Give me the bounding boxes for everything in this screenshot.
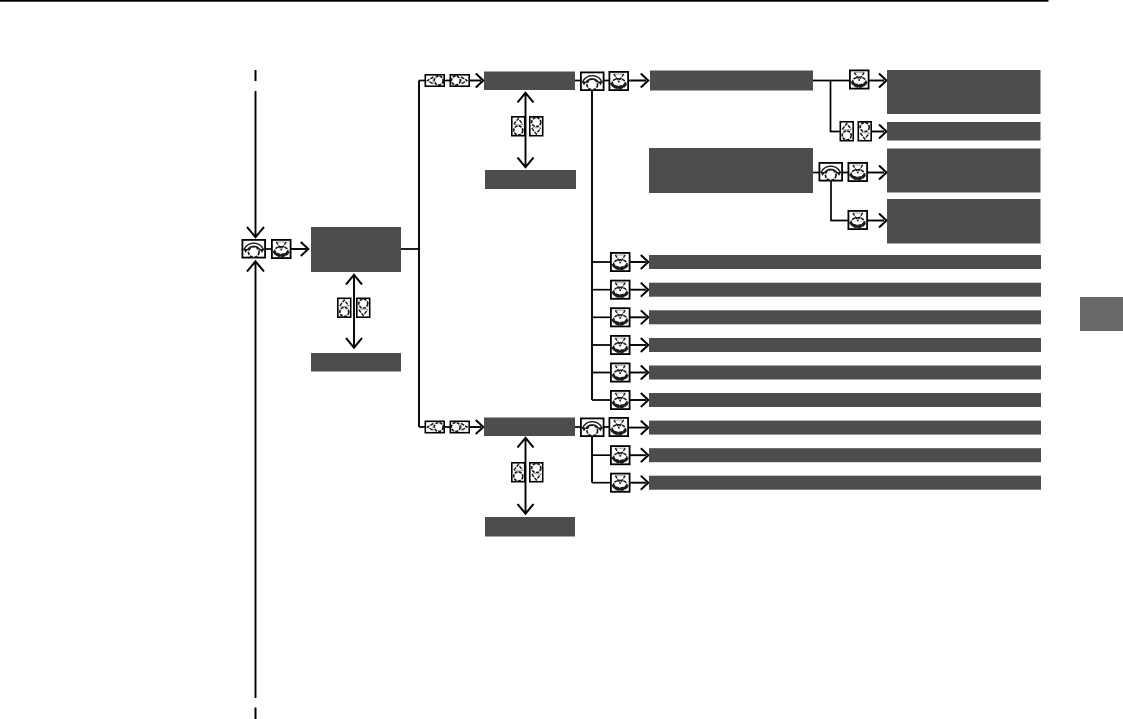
up-down arrow under box A xyxy=(353,276,355,347)
spine 1 vertical xyxy=(418,81,420,428)
arrow row c6 xyxy=(631,399,647,401)
tilt-up icon U2 xyxy=(512,117,525,136)
wire stub row c9 xyxy=(592,482,611,484)
tilt-up icon U1 xyxy=(338,298,351,317)
tilt-down icon D3 xyxy=(858,122,871,141)
press-knob icon P6 xyxy=(609,418,628,436)
bar c8 xyxy=(649,448,1041,462)
wire stub row c2 xyxy=(592,289,611,291)
tilt-down icon D4 xyxy=(530,463,543,482)
top border line xyxy=(0,0,1049,2)
bar c3 xyxy=(649,310,1041,324)
box E speed dial 2 xyxy=(485,170,576,189)
tilt-down icon D2 xyxy=(530,117,543,136)
box G call confirm xyxy=(887,70,1041,114)
arrow to box D xyxy=(629,80,646,82)
rotate-knob icon R2 xyxy=(581,72,604,90)
left rail bottom dash xyxy=(255,708,257,719)
down arrowhead into rotate icon xyxy=(247,227,264,237)
box A main menu xyxy=(311,227,401,272)
wire icon link row1 xyxy=(264,248,273,250)
box C call history xyxy=(484,72,575,91)
wire box F to rotate icon xyxy=(813,172,820,174)
arrow to box C2 xyxy=(470,426,481,428)
bar c5 xyxy=(649,366,1041,380)
arrow row c3 xyxy=(631,316,647,318)
box B speed dial xyxy=(311,353,401,372)
bar c2 xyxy=(649,283,1041,297)
wire drop from box D junction xyxy=(831,81,841,132)
left rail lower wire xyxy=(255,262,257,699)
rotate-knob icon R4 xyxy=(581,418,604,436)
tilt-left icon L1 xyxy=(425,75,444,86)
arrow to box H xyxy=(872,131,884,133)
press-knob icon row c3 xyxy=(611,308,630,326)
tilt-right icon T1 xyxy=(450,75,469,86)
press-knob icon row c1 xyxy=(611,253,630,271)
wire box D to press icon P3 xyxy=(813,80,849,82)
up-down arrow under box C xyxy=(525,94,527,166)
spine 3 vertical from rotate R4 xyxy=(591,437,593,483)
press-knob icon row c8 xyxy=(611,446,630,464)
bar c9 xyxy=(649,476,1041,490)
wire icon link xyxy=(842,172,850,174)
box F phonebook xyxy=(649,148,813,193)
right page tab xyxy=(1080,297,1123,331)
left rail upper wire xyxy=(255,91,257,237)
wire spine to tilt icons row C2 xyxy=(419,426,426,428)
rotate-knob icon R3 xyxy=(819,163,842,181)
box C2 phone setup xyxy=(484,418,575,437)
wire stub row c5 xyxy=(592,372,611,374)
wire stub row c6 xyxy=(592,399,611,401)
arrow row c7 xyxy=(629,427,646,429)
tilt-down icon D1 xyxy=(357,298,370,317)
arrow row c5 xyxy=(631,372,647,374)
bar c7 xyxy=(649,421,1041,435)
press-knob icon P1 xyxy=(272,240,291,258)
arrow to box J xyxy=(868,220,884,222)
rotate-knob icon R1 xyxy=(242,240,265,258)
bar c4 xyxy=(649,338,1041,352)
press-knob icon row c5 xyxy=(611,363,630,381)
wire box A to spine xyxy=(401,248,420,250)
bar c6 xyxy=(649,393,1041,407)
wire box C2 to rotate icon xyxy=(575,426,581,428)
press-knob icon row c6 xyxy=(611,391,630,409)
wire icon link xyxy=(603,426,610,428)
arrow to box I xyxy=(868,172,884,174)
wire stub row c4 xyxy=(592,344,611,346)
press-knob icon P5 xyxy=(848,211,867,229)
press-knob icon P3 xyxy=(850,70,869,88)
wire icon link xyxy=(444,426,451,428)
spine 2 vertical from rotate R2 xyxy=(591,91,593,400)
arrow to box C xyxy=(470,80,481,82)
wire rotate R3 drop to press P5 xyxy=(831,182,848,221)
arrow row c2 xyxy=(631,289,647,291)
box D dialed number xyxy=(650,71,813,91)
up-down arrow under box C2 xyxy=(525,439,527,513)
press-knob icon P4 xyxy=(848,163,867,181)
arrow row c8 xyxy=(631,454,647,456)
wire spine to tilt icons row C xyxy=(419,80,426,82)
arrow row c9 xyxy=(631,482,647,484)
wire stub row c3 xyxy=(592,316,611,318)
wire icon link xyxy=(444,80,451,82)
press-knob icon row c2 xyxy=(611,281,630,299)
tilt-up icon U4 xyxy=(512,463,525,482)
box I name list xyxy=(887,149,1041,193)
tilt-up icon U3 xyxy=(840,122,853,141)
press-knob icon row c4 xyxy=(611,336,630,354)
press-knob icon P2 xyxy=(609,72,628,90)
up arrowhead toward rotate icon xyxy=(247,261,264,271)
arrow row c4 xyxy=(631,344,647,346)
wire box C to rotate icon xyxy=(575,80,581,82)
wire stub row c1 xyxy=(592,261,611,263)
press-knob icon row c9 xyxy=(611,474,630,492)
wire stub row c8 xyxy=(592,454,611,456)
arrow to box G xyxy=(870,80,885,82)
arrow row c1 xyxy=(631,261,647,263)
left rail top dash xyxy=(255,70,257,81)
arrow to Phone Menu box xyxy=(292,248,307,250)
bar c1 xyxy=(649,255,1041,269)
box J number confirm xyxy=(887,199,1041,244)
wire icon link xyxy=(603,80,610,82)
tilt-left icon L2 xyxy=(425,421,444,432)
tilt-right icon T2 xyxy=(450,421,469,432)
box E2 speed dial 3 xyxy=(485,517,575,537)
box H scroll list xyxy=(887,122,1041,141)
